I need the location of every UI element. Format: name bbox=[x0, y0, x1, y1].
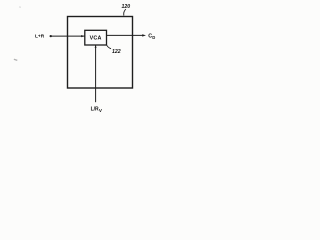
svg-text:VCA: VCA bbox=[90, 35, 102, 41]
svg-text:L/R: L/R bbox=[91, 106, 99, 112]
svg-text:D: D bbox=[152, 35, 155, 40]
svg-text:L+R: L+R bbox=[35, 34, 45, 40]
svg-text:122: 122 bbox=[112, 49, 121, 55]
svg-text:V: V bbox=[99, 108, 103, 113]
